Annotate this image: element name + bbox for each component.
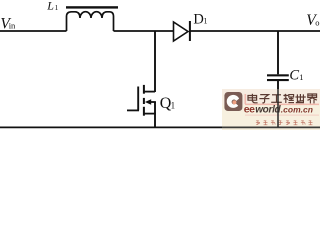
- transistor Q1 gate bar: [137, 87, 139, 111]
- watermark chinese char 工: [271, 95, 282, 103]
- transistor Q1 drain lead: [144, 91, 155, 93]
- wire: from inductor to diode anode: [114, 30, 174, 32]
- svg-text:.com.cn: .com.cn: [281, 105, 313, 115]
- watermark chinese char 世: [295, 94, 305, 103]
- capacitor C1 bottom plate: [267, 79, 289, 81]
- watermark chinese char 界: [307, 94, 317, 103]
- watermark logo square: [224, 92, 242, 111]
- wire: source vertical down to ground rail: [154, 102, 156, 127]
- wire: ground rail segment over watermark: [222, 126, 320, 128]
- watermark logo C crescent: [227, 95, 239, 108]
- svg-text:D: D: [193, 11, 203, 27]
- ground rail: [0, 126, 320, 128]
- watermark text eeworld.com.cn: [244, 104, 313, 116]
- inductor L1 coil: [67, 12, 114, 31]
- svg-text:L: L: [46, 0, 54, 13]
- svg-text:ee: ee: [244, 104, 255, 116]
- wire: from diode cathode to right edge: [190, 30, 320, 32]
- svg-text:1: 1: [299, 72, 303, 82]
- wire: capacitor bottom vertical to ground rail: [277, 81, 279, 127]
- svg-text:C: C: [289, 68, 299, 84]
- watermark logo dot: [232, 100, 236, 104]
- transistor Q1 gate lead: [127, 109, 139, 111]
- capacitor C1 top plate: [267, 74, 289, 76]
- svg-text:1: 1: [171, 101, 176, 111]
- inductor L1 core bar: [66, 6, 118, 8]
- wire: capacitor vertical segment over watermark: [277, 89, 279, 127]
- transistor Q1 channel segment top: [143, 85, 145, 94]
- watermark bottom slogan row: [256, 121, 313, 125]
- watermark background: [222, 89, 320, 130]
- transistor Q1 channel segment bottom: [143, 107, 145, 116]
- svg-text:in: in: [9, 21, 16, 31]
- svg-text:o: o: [315, 18, 319, 28]
- wire: drain vertical from top-wire junction down to MOSFET: [154, 31, 156, 92]
- diode D1 cathode bar: [189, 21, 191, 41]
- transistor Q1 channel segment middle: [143, 98, 145, 104]
- svg-text:1: 1: [204, 16, 208, 25]
- diode D1 triangle: [174, 22, 189, 41]
- wire: input top wire from left edge to inductor: [0, 30, 67, 32]
- transistor Q1 source lead: [144, 113, 156, 115]
- watermark chinese char 程: [283, 94, 294, 103]
- transistor Q1 arrow head: [145, 99, 151, 104]
- transistor Q1 body arrow lead: [150, 101, 156, 103]
- watermark chinese char 电: [248, 94, 258, 103]
- wire: capacitor top vertical from output wire: [277, 31, 279, 74]
- svg-text:1: 1: [55, 3, 59, 12]
- watermark chinese char 子: [259, 95, 269, 103]
